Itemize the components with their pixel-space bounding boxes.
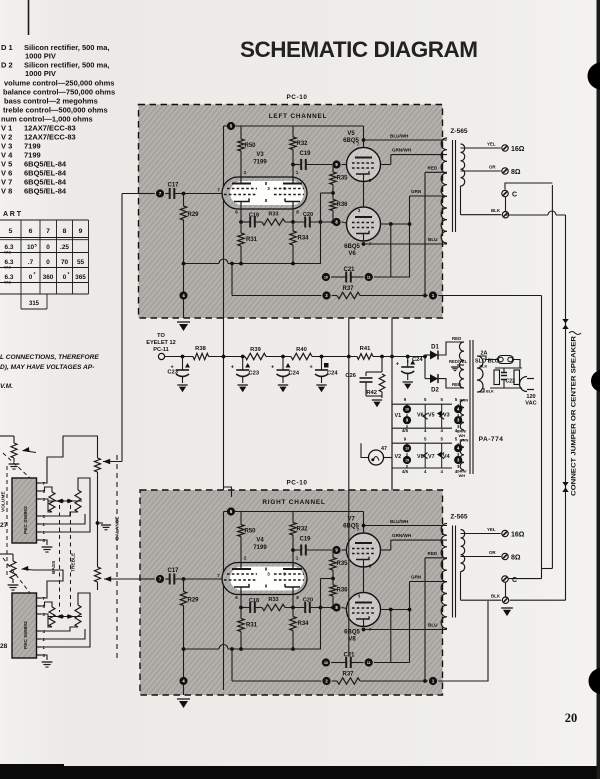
svg-text:7199: 7199 — [253, 545, 267, 551]
svg-text:V7: V7 — [428, 454, 435, 460]
svg-text:SCHEMATIC DIAGRAM: SCHEMATIC DIAGRAM — [240, 37, 480, 62]
svg-text:V8: V8 — [348, 637, 356, 643]
svg-text:GRN: GRN — [411, 189, 422, 194]
svg-text:R31: R31 — [246, 237, 258, 243]
svg-text:YEL: YEL — [487, 142, 496, 147]
svg-text:6: 6 — [235, 595, 238, 600]
svg-text:C17: C17 — [167, 183, 179, 189]
svg-text:1000 PIV: 1000 PIV — [25, 52, 56, 61]
svg-text:BLK: BLK — [491, 208, 501, 213]
svg-text:8Ω: 8Ω — [511, 555, 521, 562]
svg-text:R36: R36 — [337, 202, 349, 208]
svg-text:55: 55 — [77, 259, 85, 266]
svg-text:CONNECT JUMPER OR CENTER SPEAK: CONNECT JUMPER OR CENTER SPEAKER — [571, 336, 578, 496]
svg-text:BLU/WH: BLU/WH — [390, 134, 409, 139]
svg-text:R39: R39 — [250, 347, 261, 353]
svg-text:BLK: BLK — [491, 594, 501, 599]
svg-text:3: 3 — [267, 186, 270, 191]
svg-text:D2: D2 — [431, 388, 439, 394]
svg-text:.25: .25 — [60, 244, 69, 251]
svg-text:WH: WH — [459, 473, 466, 478]
svg-text:OR: OR — [489, 165, 496, 170]
svg-text:28: 28 — [0, 643, 8, 650]
svg-text:R37: R37 — [342, 672, 354, 678]
svg-text:R37: R37 — [342, 286, 354, 292]
svg-text:C24: C24 — [412, 357, 423, 363]
svg-text:D 2: D 2 — [1, 61, 13, 70]
svg-text:C18: C18 — [249, 213, 259, 219]
svg-text:V6: V6 — [417, 413, 424, 419]
svg-text:BLU: BLU — [428, 623, 438, 628]
svg-text:315: 315 — [29, 301, 40, 307]
svg-text:R41: R41 — [360, 346, 371, 352]
svg-text:D), MAY HAVE VOLTAGES AP-: D), MAY HAVE VOLTAGES AP- — [0, 364, 94, 371]
svg-text:C: C — [512, 192, 517, 199]
svg-text:VAC: VAC — [4, 266, 11, 270]
svg-text:BLK: BLK — [486, 390, 494, 394]
svg-text:9: 9 — [79, 228, 83, 235]
svg-text:R50: R50 — [245, 143, 257, 149]
svg-text:2: 2 — [244, 170, 247, 175]
svg-text:GRN/WH: GRN/WH — [392, 533, 412, 538]
svg-text:12AX7/ECC-83: 12AX7/ECC-83 — [24, 124, 76, 133]
svg-text:2A: 2A — [481, 351, 488, 357]
svg-text:10: 10 — [405, 408, 409, 412]
svg-text:16Ω: 16Ω — [511, 146, 525, 153]
svg-text:11: 11 — [367, 276, 371, 280]
svg-text:R32: R32 — [297, 527, 309, 533]
svg-text:70: 70 — [61, 259, 69, 266]
svg-text:R38: R38 — [195, 346, 206, 352]
svg-text:5: 5 — [9, 228, 13, 235]
svg-text:1: 1 — [296, 170, 299, 175]
svg-text:R29: R29 — [188, 212, 200, 218]
svg-text:V4: V4 — [443, 454, 450, 460]
svg-text:R35: R35 — [337, 561, 349, 567]
svg-text:BLK: BLK — [480, 364, 488, 368]
svg-text:C20: C20 — [303, 598, 313, 604]
svg-text:10: 10 — [324, 661, 328, 665]
svg-text:6BQ5: 6BQ5 — [344, 244, 360, 250]
svg-text:6BQ5/EL-84: 6BQ5/EL-84 — [24, 169, 67, 178]
svg-text:V1: V1 — [395, 413, 402, 419]
svg-text:V6: V6 — [348, 251, 356, 257]
svg-text:V 6: V 6 — [1, 169, 12, 178]
svg-text:C21: C21 — [343, 267, 355, 273]
svg-text:V 4: V 4 — [1, 151, 13, 160]
svg-text:6BQ5/EL-84: 6BQ5/EL-84 — [24, 178, 67, 187]
svg-text:V 7: V 7 — [1, 178, 12, 187]
svg-text:YEL: YEL — [487, 527, 496, 532]
svg-text:A R T: A R T — [3, 211, 22, 218]
svg-text:LEFT CHANNEL: LEFT CHANNEL — [269, 113, 328, 120]
svg-text:R33: R33 — [268, 597, 278, 603]
svg-text:8: 8 — [296, 595, 299, 600]
svg-text:0: 0 — [46, 259, 50, 266]
svg-text:C23: C23 — [249, 371, 260, 377]
svg-text:V 3: V 3 — [1, 142, 12, 151]
svg-text:C26: C26 — [345, 373, 356, 379]
svg-text:7: 7 — [46, 228, 50, 235]
svg-text:TO: TO — [157, 333, 165, 339]
svg-text:RED: RED — [452, 336, 461, 341]
svg-text:+: + — [271, 365, 274, 371]
svg-text:R31: R31 — [246, 623, 258, 629]
svg-text:8Ω: 8Ω — [511, 169, 521, 176]
svg-text:BLU/WH: BLU/WH — [390, 519, 409, 524]
svg-text:GRN/WH: GRN/WH — [392, 148, 412, 153]
svg-text:RED: RED — [452, 382, 461, 387]
svg-text:GRN: GRN — [411, 575, 422, 580]
svg-text:R29: R29 — [188, 598, 200, 604]
svg-text:BRN: BRN — [460, 398, 469, 403]
svg-text:R36: R36 — [337, 588, 349, 594]
svg-text:OR: OR — [489, 550, 496, 555]
svg-text:D1: D1 — [431, 345, 439, 351]
svg-text:27: 27 — [0, 522, 8, 529]
svg-text:GRN: GRN — [460, 438, 469, 443]
svg-text:PC-11: PC-11 — [153, 347, 169, 353]
svg-text:BASS: BASS — [51, 560, 57, 574]
svg-text:R42: R42 — [366, 390, 377, 396]
svg-text:+: + — [396, 362, 399, 368]
svg-text:2: 2 — [244, 556, 247, 561]
svg-text:V 8: V 8 — [1, 187, 12, 196]
svg-text:*: * — [34, 272, 36, 278]
svg-text:volume control—250,000 ohms: volume control—250,000 ohms — [4, 79, 114, 88]
svg-text:15: 15 — [405, 459, 409, 463]
svg-text:D 1: D 1 — [1, 43, 13, 52]
svg-text:VOLUME: VOLUME — [1, 491, 7, 512]
svg-text:10: 10 — [324, 276, 328, 280]
svg-text:+: + — [310, 365, 313, 371]
svg-text:365: 365 — [75, 274, 86, 281]
svg-text:PA-774: PA-774 — [479, 436, 504, 443]
svg-text:C18: C18 — [249, 598, 259, 604]
svg-text:7199: 7199 — [253, 160, 267, 166]
svg-text:12AX7/ECC-83: 12AX7/ECC-83 — [24, 133, 76, 142]
svg-text:6BQ5/EL-84: 6BQ5/EL-84 — [24, 187, 67, 196]
svg-text:9: 9 — [283, 572, 286, 577]
svg-text:C24: C24 — [327, 371, 338, 377]
svg-text:C23: C23 — [167, 370, 178, 376]
svg-text:47: 47 — [381, 446, 387, 452]
svg-text:R35: R35 — [337, 176, 349, 182]
svg-text:VAC: VAC — [4, 251, 11, 255]
svg-text:3: 3 — [267, 572, 270, 577]
svg-text:V3: V3 — [443, 413, 450, 419]
svg-text:num control—1,000 ohms: num control—1,000 ohms — [1, 115, 93, 124]
svg-text:7: 7 — [217, 188, 220, 193]
svg-text:V8: V8 — [417, 454, 424, 460]
svg-text:7: 7 — [217, 573, 220, 578]
svg-text:0: 0 — [63, 274, 67, 281]
svg-text:6BQ5/EL-84: 6BQ5/EL-84 — [24, 160, 67, 169]
svg-text:PEC S58802: PEC S58802 — [23, 506, 29, 534]
svg-text:9: 9 — [283, 186, 286, 191]
svg-text:C24: C24 — [289, 371, 300, 377]
svg-text:360: 360 — [43, 274, 54, 281]
svg-text:EYELET 12: EYELET 12 — [146, 340, 176, 346]
svg-text:RIGHT CHANNEL: RIGHT CHANNEL — [262, 499, 325, 506]
svg-text:8: 8 — [296, 210, 299, 215]
svg-text:V5: V5 — [347, 131, 355, 137]
svg-text:C17: C17 — [167, 568, 179, 574]
svg-text:TREBLE: TREBLE — [71, 552, 77, 572]
svg-text:7199: 7199 — [24, 151, 41, 160]
svg-text:0: 0 — [46, 244, 50, 251]
svg-text:4/5: 4/5 — [402, 469, 409, 474]
svg-text:C22: C22 — [506, 379, 516, 385]
svg-text:+: + — [231, 365, 234, 371]
svg-text:RED/YEL: RED/YEL — [449, 359, 468, 364]
svg-text:BALANCE: BALANCE — [115, 516, 121, 540]
svg-text:treble control—500,000 ohms: treble control—500,000 ohms — [3, 106, 108, 115]
svg-text:PEC S58802: PEC S58802 — [23, 621, 29, 649]
svg-text:V3: V3 — [256, 152, 264, 158]
svg-text:6BQ5: 6BQ5 — [343, 524, 359, 530]
svg-text:VAC: VAC — [525, 401, 536, 407]
svg-text:11: 11 — [367, 661, 371, 665]
svg-text:R32: R32 — [297, 141, 309, 147]
svg-text:R50: R50 — [245, 529, 257, 535]
svg-text:1: 1 — [296, 556, 299, 561]
svg-text:.7: .7 — [28, 259, 34, 266]
svg-text:6BQ5: 6BQ5 — [343, 138, 359, 144]
svg-text:RED: RED — [428, 551, 438, 556]
svg-text:*: * — [68, 272, 70, 278]
svg-text:8: 8 — [63, 228, 67, 235]
svg-text:BLU: BLU — [428, 237, 438, 242]
svg-text:16Ω: 16Ω — [511, 532, 525, 539]
svg-text:PC-10: PC-10 — [286, 94, 307, 101]
svg-text:V 1: V 1 — [1, 124, 12, 133]
svg-text:R40: R40 — [296, 347, 307, 353]
svg-text:7199: 7199 — [24, 142, 41, 151]
svg-text:V 2: V 2 — [1, 133, 12, 142]
svg-text:Z-565: Z-565 — [450, 128, 468, 135]
svg-text:V.M.: V.M. — [0, 383, 13, 390]
svg-text:120: 120 — [526, 394, 535, 400]
svg-text:C20: C20 — [303, 212, 313, 218]
svg-text:0: 0 — [29, 274, 33, 281]
svg-text:V4: V4 — [256, 538, 264, 544]
svg-text:Z-565: Z-565 — [450, 514, 468, 521]
svg-text:balance control—750,000 ohms: balance control—750,000 ohms — [3, 88, 115, 97]
svg-text:V 5: V 5 — [1, 160, 12, 169]
svg-text:VAC: VAC — [4, 281, 11, 285]
svg-text:L CONNECTIONS, THEREFORE: L CONNECTIONS, THEREFORE — [0, 354, 99, 361]
svg-text:6: 6 — [235, 210, 238, 215]
svg-text:R34: R34 — [298, 621, 310, 627]
svg-text:4/5: 4/5 — [402, 428, 409, 433]
svg-text:bass control—2 megohms: bass control—2 megohms — [4, 97, 98, 106]
svg-text:10: 10 — [27, 244, 35, 251]
svg-text:20: 20 — [565, 711, 578, 725]
svg-text:1000 PIV: 1000 PIV — [25, 69, 56, 78]
svg-text:PC-10: PC-10 — [286, 480, 307, 487]
svg-text:R33: R33 — [268, 212, 278, 218]
svg-text:V5: V5 — [428, 413, 435, 419]
svg-text:R34: R34 — [298, 236, 310, 242]
svg-text:C19: C19 — [299, 151, 311, 157]
svg-text:V2: V2 — [395, 454, 402, 460]
svg-text:C19: C19 — [299, 537, 311, 543]
svg-text:RED: RED — [428, 165, 438, 170]
svg-text:6: 6 — [29, 228, 33, 235]
svg-text:13: 13 — [405, 447, 409, 451]
svg-text:6BQ5: 6BQ5 — [344, 630, 360, 636]
